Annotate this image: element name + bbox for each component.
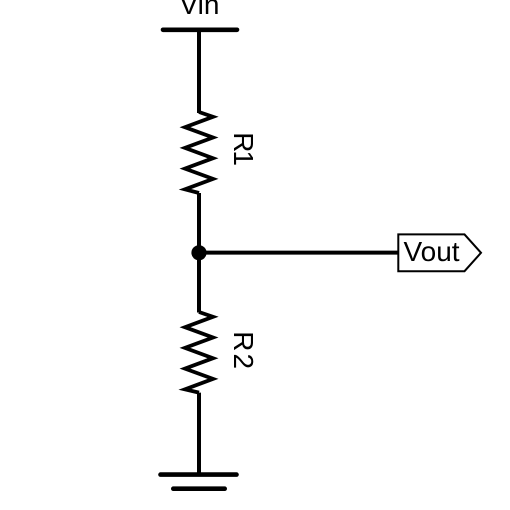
ground (161, 475, 237, 489)
svg-text:Vin: Vin (180, 0, 220, 20)
wire: node A to Vout flag (199, 251, 398, 255)
resistor R2 (185, 312, 213, 393)
node A junction dot (191, 245, 206, 260)
wire: R1 to node A (197, 193, 201, 253)
svg-text:R1: R1 (228, 132, 259, 165)
wire: R2 to ground (197, 393, 201, 475)
resistor R1 (185, 112, 213, 193)
svg-text:Vout: Vout (404, 236, 460, 267)
wire: node A to R2 (197, 253, 201, 313)
svg-text:R2: R2 (228, 331, 259, 371)
net flag Vout (398, 234, 481, 271)
power rail bar Vin (163, 27, 237, 32)
wire: Vin rail to R1 (197, 30, 201, 113)
